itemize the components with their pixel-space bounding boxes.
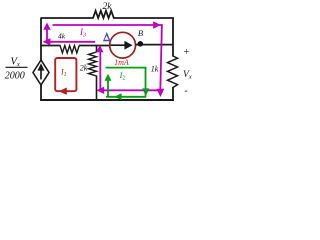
I3 loop center up segment [99,47,101,90]
I3 loop bottom segment [98,89,161,91]
wire middle right [136,44,174,46]
arrow inside source (right) [111,44,126,46]
current source I 1mA circle [110,32,136,58]
mesh current I3 loop (magenta) : left up arrow [46,25,48,43]
I3 loop top segment [53,24,163,26]
svg-text:Vx: Vx [11,57,20,69]
wire right edge upper [172,18,174,57]
I2 loop right segment [145,68,147,97]
resistor 2k center vertical [96,45,98,53]
svg-text:I1: I1 [60,68,67,79]
wire left edge lower [40,85,42,102]
svg-text:1mA: 1mA [114,58,129,67]
I3 loop left-return segment [44,41,95,43]
svg-text:2k: 2k [103,2,113,12]
arrow inside diamond (up) [40,67,42,80]
wire left edge upper [40,18,42,61]
mesh current I2 loop (green) : left up arrow [107,76,109,97]
node A marker (blue triangle) [103,32,111,41]
I3 loop right segment [160,24,162,91]
node B dot [138,41,144,47]
wire right edge lower [172,87,174,101]
svg-text:+: + [184,47,190,58]
I2 loop bottom segment [106,96,146,98]
svg-text:1k: 1k [151,65,159,74]
svg-text:4k: 4k [58,32,66,41]
svg-text:I2: I2 [119,70,126,82]
svg-text:I3: I3 [79,27,86,39]
resistor 1k right edge [168,56,178,88]
svg-text:2000: 2000 [5,70,25,81]
wire middle to source [79,45,110,47]
svg-text:B: B [138,28,143,38]
dependent source U1 diamond Vx/2000 [33,60,49,85]
resistor 4k middle [60,46,79,54]
I2 loop top segment [106,67,147,69]
wire middle left [40,45,60,47]
wire top edge with resistor 2k [41,11,174,18]
svg-text:Vx: Vx [183,70,192,81]
wire bottom edge [40,99,174,101]
mesh current I1 loop (red) [55,58,76,91]
svg-text:-: - [184,86,187,97]
svg-text:2k: 2k [80,63,88,72]
